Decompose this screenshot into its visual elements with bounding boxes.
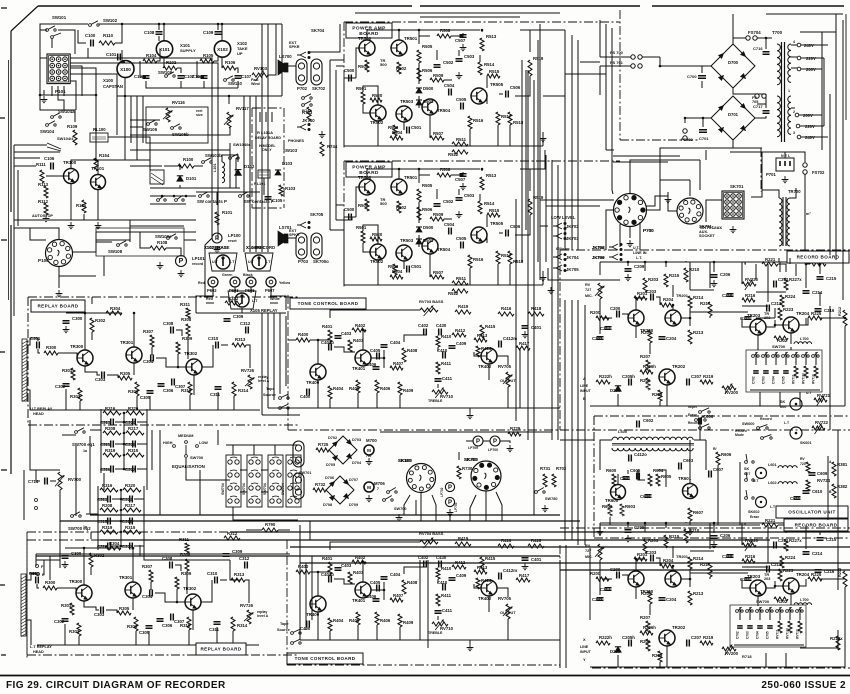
svg-text:C503: C503	[464, 193, 475, 198]
svg-text:R305: R305	[119, 606, 130, 611]
svg-text:C106: C106	[44, 156, 55, 161]
pot wiper RV116	[163, 111, 172, 119]
svg-text:JK708: JK708	[592, 245, 605, 250]
wire pa2 19	[499, 232, 503, 234]
svg-text:R200: R200	[590, 571, 601, 576]
svg-text:C704: C704	[772, 376, 776, 384]
svg-text:C300: C300	[72, 316, 83, 321]
wire Vbund2	[545, 155, 547, 262]
svg-text:C704: C704	[756, 631, 760, 639]
svg-text:C203: C203	[646, 550, 657, 555]
svg-text:R110: R110	[103, 33, 114, 38]
junction	[95, 94, 98, 97]
wire jk bus	[540, 226, 548, 280]
svg-text:RV700: RV700	[68, 477, 82, 482]
svg-text:P607: P607	[265, 288, 275, 293]
wire pa2 22	[429, 254, 431, 277]
switch SW700 eq2	[71, 515, 74, 518]
wire rc2 b6	[617, 655, 619, 667]
svg-text:R730: R730	[462, 466, 473, 471]
switch SW tape/source 1a	[279, 397, 282, 400]
wire pa2 7	[451, 172, 463, 175]
wire br2	[800, 647, 838, 649]
wire sockfan6	[485, 505, 487, 521]
junction	[383, 357, 386, 360]
motor X101	[156, 41, 172, 57]
svg-text:C403: C403	[341, 563, 352, 568]
svg-text:R400: R400	[298, 332, 309, 337]
svg-text:LP703: LP703	[454, 502, 458, 512]
wire tn2 8	[329, 542, 331, 550]
svg-text:250-060 ISSUE 2: 250-060 ISSUE 2	[761, 680, 846, 691]
svg-text:R607: R607	[693, 510, 704, 515]
wire rp1 6	[91, 332, 93, 340]
svg-text:RL100: RL100	[93, 127, 106, 132]
resistor R302	[89, 553, 93, 567]
ground	[522, 331, 529, 338]
wire tr100 col	[71, 160, 96, 168]
jack JK709	[609, 254, 618, 260]
wire tn2 14	[497, 588, 508, 597]
svg-text:L700: L700	[800, 598, 809, 602]
svg-text:R213: R213	[693, 591, 704, 596]
wire rl bus	[130, 160, 150, 170]
resistor R206h	[640, 370, 653, 374]
resistor R743	[307, 107, 311, 121]
junction	[689, 578, 692, 581]
resistor R507	[430, 136, 444, 140]
bridge rectifier D702-D705	[329, 436, 357, 464]
wire p100 up	[14, 228, 59, 239]
transistor TR500	[359, 40, 375, 56]
wire bundle L9	[281, 24, 283, 96]
svg-text:M: M	[367, 448, 371, 453]
wire tn1 b3	[357, 393, 359, 408]
fuse FS700 circles	[631, 55, 635, 59]
terminal 200V top	[797, 67, 801, 71]
resistor RV710r	[804, 366, 808, 378]
resistor R205	[648, 591, 652, 604]
wire xbund3	[273, 313, 275, 400]
svg-text:R314: R314	[238, 388, 249, 393]
capacitor C317	[133, 466, 136, 473]
resistor R320	[123, 488, 141, 492]
svg-text:R405: R405	[349, 386, 360, 391]
ground	[68, 222, 75, 229]
wire rc1 t9	[778, 264, 786, 272]
wire rc2 t10	[806, 524, 810, 526]
svg-text:TR402: TR402	[478, 364, 492, 369]
wire rb1 h1	[756, 291, 786, 293]
junction	[844, 317, 847, 320]
wire tr700 d2	[789, 258, 791, 264]
wire rp2 11	[150, 582, 152, 590]
svg-text:L.T: L.T	[229, 260, 235, 264]
lamp LP790	[490, 436, 500, 446]
wire bundle L5	[255, 96, 257, 252]
connector P703	[296, 233, 307, 259]
wire tl p101 r	[70, 68, 96, 95]
svg-text:C411: C411	[442, 376, 453, 381]
svg-text:D705: D705	[326, 463, 335, 467]
diode D500	[416, 88, 422, 93]
wire x105 bus	[241, 308, 243, 313]
resistor R205	[648, 330, 652, 343]
capacitor C307	[172, 379, 175, 386]
svg-text:U.T: U.T	[212, 260, 219, 264]
svg-text:C101: C101	[106, 52, 117, 57]
svg-text:C108: C108	[144, 30, 155, 35]
wire pa2 24	[542, 271, 544, 285]
wire wafers link	[226, 444, 298, 446]
wire sw100 area	[150, 231, 196, 233]
resistor R310	[188, 382, 192, 395]
wire pa2 18	[486, 235, 488, 243]
switch SW tape/source 2b	[291, 642, 294, 645]
capacitor C607	[709, 471, 712, 478]
svg-text:R513: R513	[486, 34, 497, 39]
wire wafers bot	[233, 507, 298, 520]
resistor R381	[832, 462, 836, 476]
wire rb1 h5	[820, 317, 845, 319]
capacitor C312	[246, 327, 249, 334]
wire rp2 19	[245, 580, 249, 603]
svg-text:P702: P702	[297, 86, 308, 91]
svg-text:500: 500	[380, 201, 387, 206]
pot wiper RV103	[255, 71, 263, 81]
switch SW contacts P	[199, 195, 202, 198]
svg-text:R219: R219	[703, 635, 714, 640]
wire left amp bus	[329, 60, 331, 230]
resistor RV723o	[806, 462, 810, 473]
svg-text:C200: C200	[610, 306, 621, 311]
svg-text:TR204: TR204	[796, 572, 810, 577]
svg-text:R409: R409	[403, 388, 414, 393]
transistor TR502	[370, 105, 386, 121]
resistor R509	[430, 78, 444, 82]
junction	[120, 498, 123, 501]
svg-text:SW600: SW600	[742, 422, 754, 426]
junction	[217, 23, 220, 26]
capacitor C503	[456, 198, 463, 201]
capacitor C610	[803, 491, 810, 494]
resistor R514	[478, 62, 482, 75]
resistor R309	[176, 342, 180, 354]
resistor R320	[126, 411, 144, 415]
wire Vbund11	[584, 305, 586, 545]
svg-text:R113: R113	[38, 182, 49, 187]
resistor R226	[810, 262, 826, 266]
fuse FS701 circles	[631, 64, 635, 68]
wire rc1 m3	[636, 298, 645, 310]
junction	[644, 522, 647, 525]
wire tn2 bottom	[300, 639, 520, 641]
svg-text:JK705: JK705	[566, 267, 579, 272]
svg-text:R506: R506	[422, 68, 433, 73]
svg-text:TR504: TR504	[437, 247, 451, 252]
transistor TR400	[310, 364, 326, 380]
ground	[456, 72, 463, 79]
svg-text:TR501: TR501	[404, 175, 418, 180]
resistor R227x	[784, 539, 788, 551]
svg-text:JK704: JK704	[566, 255, 579, 260]
capacitor C304	[151, 355, 154, 362]
wire Hmid5	[36, 553, 290, 555]
ground	[366, 458, 373, 465]
svg-text:C410: C410	[437, 348, 448, 353]
capacitor C501	[407, 266, 410, 273]
wire rc2 t5	[665, 523, 667, 528]
wire bundle L3	[243, 96, 245, 252]
svg-text:R401: R401	[322, 556, 333, 561]
svg-text:U.T.: U.T.	[633, 246, 640, 250]
wire eq1 left rail	[100, 409, 102, 473]
resistor R217	[123, 508, 141, 512]
wire eq1 mid3	[123, 443, 125, 445]
wire rp1 b7	[217, 392, 219, 410]
switch SW700 eq sel	[173, 445, 176, 448]
wire psu bus y148	[680, 147, 762, 149]
wire tl lower h2	[130, 225, 184, 227]
wire conn d	[270, 287, 272, 296]
wire pa2 1	[344, 216, 356, 218]
wire replay feed2	[278, 296, 286, 310]
pot wiper RV117	[224, 115, 233, 125]
capacitor C318	[133, 441, 136, 448]
resistor R403	[348, 340, 352, 352]
capacitor C503	[456, 59, 463, 62]
junction	[689, 317, 692, 320]
wafer contacts c	[270, 457, 281, 503]
plug L601 circle	[756, 468, 767, 479]
wire eq2 mid1	[120, 498, 122, 500]
wire fs700 in	[600, 56, 631, 58]
board outline delay board RL101A	[252, 108, 284, 208]
wire psu fill12	[640, 222, 648, 250]
transistor TR401	[355, 582, 371, 598]
wire tn2 b4	[376, 625, 378, 640]
svg-text:T700: T700	[772, 30, 783, 35]
wire bank1 2	[775, 352, 777, 365]
wire rc2 b2	[599, 560, 601, 595]
wire tn1 7	[330, 310, 420, 318]
control box SW105/106	[146, 107, 208, 143]
resistor R316	[100, 488, 118, 492]
junction	[481, 29, 484, 32]
wire sk100 down	[420, 493, 422, 506]
resistor R216	[742, 559, 755, 563]
resistor RV220	[742, 282, 756, 286]
wire mm10	[214, 57, 218, 61]
wire rp2 bottom	[37, 644, 259, 646]
switch wafer SW704 a	[226, 455, 241, 507]
wire mm3	[163, 57, 165, 68]
svg-text:R416: R416	[501, 306, 512, 311]
resistor R744	[320, 142, 324, 156]
wire psu fill7	[689, 180, 691, 196]
svg-text:SK704: SK704	[311, 28, 325, 33]
resistor R407	[390, 598, 403, 602]
svg-text:C214: C214	[812, 290, 823, 295]
svg-text:R505: R505	[422, 183, 433, 188]
switch SW700 mid a	[387, 491, 390, 494]
wire Redge3	[821, 32, 823, 150]
svg-text:C207: C207	[691, 635, 702, 640]
svg-text:D708: D708	[323, 503, 332, 507]
svg-text:SW104/4: SW104/4	[57, 136, 74, 141]
wire sw101b	[58, 30, 75, 44]
connector X105REPLAY	[228, 291, 256, 309]
svg-text:R306: R306	[127, 624, 138, 629]
resistor R504	[390, 136, 403, 140]
resistor R515	[487, 213, 500, 217]
svg-text:P: P	[448, 500, 452, 506]
resistor RV712	[798, 621, 802, 633]
wire tr100 em	[70, 184, 72, 220]
wire c101	[122, 50, 125, 62]
svg-text:L.T: L.T	[265, 260, 271, 264]
capacitor C412o	[629, 455, 632, 462]
resistor R305	[117, 611, 131, 615]
capacitor C401	[522, 326, 529, 329]
transistor TR401	[355, 350, 371, 366]
svg-text:R105: R105	[203, 53, 214, 58]
wire rc2 b3	[635, 587, 637, 599]
wire d701 right	[755, 116, 766, 118]
wire xbund1	[261, 313, 263, 415]
svg-text:R112: R112	[38, 199, 49, 204]
switch SW tape/source 1b	[279, 407, 282, 410]
svg-text:REPLAY BOARD: REPLAY BOARD	[200, 647, 241, 652]
resistor R100	[178, 164, 194, 168]
wire p100 wires	[30, 228, 46, 240]
terminal 200V bot	[795, 113, 799, 117]
capacitor C507	[460, 35, 467, 38]
svg-text:R514: R514	[484, 62, 495, 67]
resistor R219	[700, 641, 713, 645]
resistor R503	[393, 264, 397, 275]
board outline power amp	[344, 161, 620, 289]
diode D200	[615, 386, 621, 391]
capacitor C409	[449, 346, 456, 349]
svg-text:R207: R207	[640, 615, 651, 620]
svg-text:SK601: SK601	[800, 441, 812, 445]
capacitor C315	[108, 518, 111, 525]
resistor R504	[390, 275, 403, 279]
resistor R512	[452, 150, 468, 154]
wire pa2 16	[529, 169, 531, 191]
svg-text:R603: R603	[625, 504, 636, 509]
svg-text:R409: R409	[403, 620, 414, 625]
resistor R210	[684, 268, 688, 282]
diode D701 diode 3	[718, 125, 726, 133]
pot wiper RV727	[595, 286, 604, 296]
resistor RV726	[247, 610, 251, 624]
resistor R217	[708, 563, 712, 577]
wire Vbund5	[564, 30, 566, 250]
resistor R516	[468, 255, 472, 268]
svg-text:R718: R718	[742, 654, 752, 659]
wire rp2 16	[192, 610, 194, 630]
svg-text:R401: R401	[322, 324, 333, 329]
svg-text:C401: C401	[531, 325, 542, 330]
capacitor C403	[335, 336, 342, 339]
wire rp1 bottom	[38, 409, 260, 411]
capacitor C213	[767, 305, 770, 312]
wire psu to right	[800, 31, 836, 33]
wire fs702 down	[804, 174, 806, 185]
coil L604	[778, 482, 797, 484]
page frame right edge	[845, 14, 847, 120]
svg-text:C705: C705	[782, 376, 786, 384]
wire rc2 m5	[672, 566, 674, 571]
svg-text:TR401: TR401	[352, 366, 366, 371]
resistor R519	[528, 199, 532, 215]
svg-text:C602: C602	[643, 418, 654, 423]
capacitor C105	[265, 197, 272, 200]
switch SW101 pole2	[51, 36, 54, 39]
wire mid v4	[217, 430, 219, 445]
svg-text:C309: C309	[233, 314, 244, 319]
svg-text:R310: R310	[180, 623, 191, 628]
wire p101 t3	[70, 74, 117, 96]
wire fs700 out	[642, 56, 660, 58]
wire rb2 h5	[820, 578, 845, 580]
wire bank2 bottom	[734, 644, 804, 646]
resistor R207	[646, 621, 650, 633]
transistor TR503	[396, 106, 412, 122]
svg-text:R224: R224	[785, 294, 796, 299]
resistor R212	[843, 571, 847, 587]
capacitor C216	[815, 309, 822, 312]
connector X102ERASE	[209, 253, 237, 271]
resistor R215	[664, 274, 668, 287]
switch bank contact C704 2	[756, 610, 759, 613]
motor M700	[364, 445, 374, 455]
svg-text:C204: C204	[666, 597, 677, 602]
wire rb1 h2	[690, 311, 748, 313]
svg-text:MIC.: MIC.	[585, 555, 593, 559]
svg-text:RV726: RV726	[241, 368, 255, 373]
ground	[542, 505, 549, 512]
wire eq2 link	[86, 490, 98, 514]
svg-text:TR600: TR600	[605, 498, 619, 503]
wire bend1	[205, 238, 212, 296]
switch jack contact a	[302, 97, 305, 100]
resistor R503	[393, 125, 397, 136]
wire lowV5	[427, 560, 429, 648]
wire sk701 w2	[751, 152, 762, 197]
svg-text:C502: C502	[443, 199, 454, 204]
transistor TR200	[628, 571, 644, 587]
switch bank contact RV712 2	[796, 610, 799, 613]
wire bl2	[49, 556, 51, 580]
resistor RV200	[722, 647, 736, 651]
svg-text:C302: C302	[54, 619, 65, 624]
svg-text:Source: Source	[277, 628, 290, 632]
svg-text:C405: C405	[370, 580, 381, 585]
svg-text:C209: C209	[634, 264, 645, 269]
svg-text:X100: X100	[103, 78, 114, 83]
wire tn2 10	[383, 590, 385, 600]
svg-text:JK710: JK710	[302, 118, 315, 123]
svg-text:R413: R413	[477, 333, 488, 338]
wire tn1 3	[329, 342, 331, 344]
wire ls700	[288, 65, 296, 67]
transistor TR502	[370, 244, 386, 260]
svg-text:R L101A: R L101A	[257, 130, 273, 135]
wire sw105 bus	[130, 128, 230, 135]
